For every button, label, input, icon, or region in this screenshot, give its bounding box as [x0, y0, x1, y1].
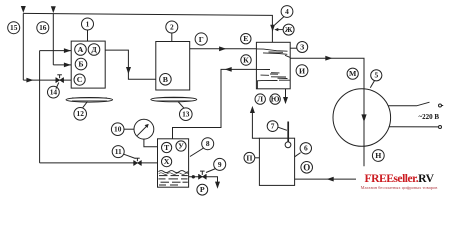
- label circle 14: [48, 83, 60, 99]
- wire C-row line into box1: [23, 79, 71, 81]
- wire tank drain: [189, 177, 218, 183]
- port circle B: [75, 58, 87, 70]
- svg-text:Д: Д: [91, 45, 97, 54]
- wire A-row line into box1: [40, 50, 72, 52]
- arrow down at Zh: [270, 25, 275, 32]
- svg-text:5: 5: [374, 71, 378, 80]
- label circle 7: [267, 121, 287, 132]
- valve 14 on C-row: [56, 75, 64, 83]
- thermometer in box P: [285, 122, 291, 148]
- svg-text:15: 15: [10, 23, 18, 32]
- connector Zh to pipe with small arrow: [278, 29, 284, 31]
- svg-text:М: М: [349, 69, 357, 78]
- svg-text:Х: Х: [164, 157, 170, 166]
- svg-text:FREEseller.RV: FREEseller.RV: [365, 172, 435, 185]
- label circle N: [372, 150, 384, 162]
- box2 reactor: [156, 42, 190, 91]
- port circle L: [255, 94, 265, 104]
- svg-text:Е: Е: [243, 34, 248, 43]
- svg-text:6: 6: [304, 144, 308, 153]
- svg-text:О: О: [303, 162, 310, 172]
- svg-text:Ж: Ж: [285, 25, 293, 34]
- label circle 12: [74, 102, 88, 121]
- label circle Z: [291, 42, 308, 53]
- svg-text:К: К: [243, 56, 249, 65]
- wire return line into box P: [295, 178, 356, 180]
- wire K-line box3 to tank: [173, 69, 257, 138]
- arrow up on P-feed: [250, 106, 255, 113]
- svg-text:9: 9: [218, 160, 222, 169]
- port circle D: [88, 44, 100, 56]
- label circle 1: [82, 18, 94, 41]
- port circle Yu: [270, 94, 280, 104]
- svg-text:16: 16: [39, 23, 47, 32]
- wire G-line box2 to box3: [190, 48, 257, 50]
- label circle 13: [178, 102, 192, 121]
- box P bio filter: [259, 138, 294, 185]
- valve 11 on tank feed: [134, 158, 142, 165]
- wire vertical A from input 15: [22, 13, 24, 80]
- port circle A: [75, 44, 87, 56]
- arrow input 2 down: [51, 6, 56, 13]
- wire B-row line into box1: [53, 64, 71, 66]
- svg-text:4: 4: [285, 7, 289, 16]
- label circle R: [197, 184, 208, 195]
- svg-text:Р: Р: [200, 185, 205, 194]
- svg-text:З: З: [300, 43, 304, 52]
- label circle 10: [111, 123, 134, 136]
- arrow down tank drain: [215, 182, 220, 189]
- svg-text:Г: Г: [199, 35, 204, 44]
- svg-text:У: У: [178, 142, 184, 151]
- arrow down on box3 outlet: [283, 97, 288, 104]
- label circle 8: [190, 138, 214, 157]
- label circle 6: [295, 143, 312, 157]
- svg-text:7: 7: [271, 122, 275, 131]
- label circle 11: [112, 146, 135, 159]
- arrow down inside motor: [361, 114, 366, 122]
- coil upper in box3: [256, 49, 290, 58]
- arrow down on box1-box2 wire: [126, 67, 131, 74]
- arrow right on G-line: [219, 46, 226, 51]
- label circle K: [241, 55, 251, 65]
- wire box1 to box2: [105, 50, 156, 79]
- svg-text:1: 1: [86, 19, 90, 28]
- svg-text:И: И: [299, 66, 305, 75]
- svg-text:10: 10: [114, 125, 122, 134]
- arrow A-row right: [64, 48, 71, 53]
- coil lower in box3: [256, 69, 290, 88]
- switch top wire: [388, 102, 443, 128]
- gauge manometer: [134, 119, 158, 147]
- svg-text:Б: Б: [78, 60, 83, 69]
- svg-text:2: 2: [170, 22, 174, 31]
- port circle S: [74, 74, 85, 85]
- label circle Zh: [283, 24, 294, 35]
- arrow C-row right: [26, 78, 33, 83]
- box3 heat exchanger: [256, 42, 290, 89]
- port circle U: [176, 141, 186, 151]
- junction dot on tank drain: [192, 175, 195, 178]
- arrowhead gauge needle: [145, 124, 149, 128]
- water hatching dashes: [159, 176, 188, 185]
- lamp ellipse 12: [66, 98, 113, 103]
- svg-text:8: 8: [206, 139, 210, 148]
- label circle 4: [275, 6, 293, 25]
- label circle 5: [370, 70, 382, 88]
- label circle 16: [37, 22, 49, 34]
- label circle G: [195, 33, 207, 45]
- label circle 15: [8, 22, 20, 34]
- wire box3 bottom outlet down: [285, 89, 287, 98]
- label circle 9: [206, 158, 226, 172]
- label circle O: [301, 162, 313, 174]
- port circle V: [160, 74, 172, 86]
- svg-text:11: 11: [115, 147, 122, 156]
- svg-text:14: 14: [50, 88, 58, 97]
- wire vertical B: [39, 51, 41, 163]
- svg-text:13: 13: [182, 110, 190, 119]
- arrow right on Z-line: [325, 56, 332, 61]
- svg-text:А: А: [78, 45, 84, 54]
- wire vertical C from input 16: [52, 14, 54, 65]
- arrow input 1 down: [21, 6, 26, 13]
- svg-text:Н: Н: [375, 151, 381, 160]
- label circle E: [241, 34, 251, 44]
- box1 ozonator unit: [71, 41, 105, 88]
- svg-text:Ю: Ю: [271, 95, 280, 104]
- arrow left on K-line: [225, 67, 232, 72]
- label circle 2: [166, 21, 178, 42]
- tank box4: [158, 139, 189, 187]
- svg-text:12: 12: [77, 109, 85, 118]
- port circle X: [162, 157, 172, 167]
- wire P-feed up to box3: [252, 113, 259, 139]
- arrow B-row right: [64, 63, 71, 68]
- valve 9 on tank drain: [199, 171, 207, 179]
- svg-text:Магазин бесплатных цифровых то: Магазин бесплатных цифровых товаров: [361, 185, 438, 190]
- arrow left on return line: [327, 177, 334, 182]
- water wavy line in tank: [159, 171, 189, 173]
- label circle M: [347, 68, 358, 79]
- svg-text:С: С: [77, 75, 83, 84]
- svg-text:Л: Л: [257, 95, 263, 104]
- svg-text:Т: Т: [164, 143, 170, 152]
- motor pump circle: [333, 89, 391, 147]
- svg-text:П: П: [246, 153, 252, 162]
- label circle I: [296, 65, 308, 77]
- wire top header line: [23, 13, 272, 42]
- svg-text:~220 В: ~220 В: [419, 113, 440, 121]
- port circle T: [162, 142, 172, 152]
- wire Z-line box3 to motor: [290, 58, 364, 166]
- wire bottom feed to tank with valve 11: [40, 162, 158, 164]
- label circle P: [244, 152, 259, 163]
- lamp ellipse 13: [151, 97, 197, 102]
- svg-text:В: В: [163, 75, 168, 84]
